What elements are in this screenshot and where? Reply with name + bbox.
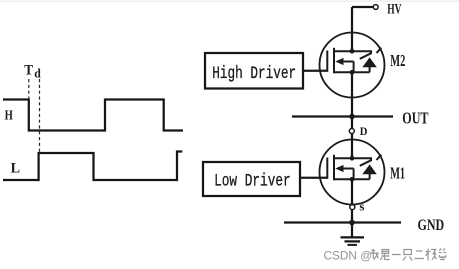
M2 body diode cathode bar bbox=[360, 53, 371, 59]
M2 drain dot bbox=[350, 49, 355, 54]
watermark CJK glyph 一 bbox=[392, 254, 401, 256]
svg-text:CSDN @: CSDN @ bbox=[324, 249, 373, 263]
M1 drain dot bbox=[350, 156, 355, 161]
svg-text:Low Driver: Low Driver bbox=[214, 171, 291, 192]
ground bar 2 bbox=[345, 240, 361, 242]
wire HV to M2 drain bbox=[351, 7, 353, 51]
M2 body arrow line bbox=[340, 61, 354, 63]
M2 body-source jog bbox=[353, 62, 355, 73]
watermark CJK glyph 二 bbox=[415, 251, 424, 259]
ground symbol stem bbox=[351, 223, 353, 237]
svg-text:OUT: OUT bbox=[402, 110, 428, 128]
M2 source stub bbox=[334, 71, 370, 73]
M1 body diode cathode bar bbox=[360, 160, 371, 166]
M1 body diode cathode tick bbox=[377, 155, 382, 160]
svg-text:M2: M2 bbox=[390, 53, 405, 71]
wire M1 source to S bbox=[351, 179, 353, 204]
box Low Driver bbox=[203, 162, 300, 196]
box High Driver bbox=[205, 53, 303, 89]
M1 body arrow line bbox=[340, 168, 354, 170]
svg-text:High Driver: High Driver bbox=[212, 63, 296, 84]
transistor M2 bbox=[303, 33, 385, 98]
M1 body diode triangle bbox=[362, 164, 377, 174]
junction OUT dot bbox=[349, 114, 355, 120]
M2 channel bar bbox=[333, 48, 335, 74]
svg-text:s: s bbox=[359, 198, 364, 213]
waveform L trace bbox=[3, 152, 182, 181]
wire GND rail bbox=[284, 221, 401, 223]
M2 source dot bbox=[350, 70, 355, 75]
M2 body diode triangle bbox=[362, 57, 377, 67]
wire HV stub bbox=[352, 6, 373, 8]
watermark CJK glyph 我 bbox=[370, 249, 378, 260]
ground bar 1 bbox=[341, 236, 365, 238]
M1 channel bar bbox=[333, 155, 335, 181]
watermark CJK glyph 管 bbox=[439, 249, 446, 260]
wire S to GND rail bbox=[351, 210, 353, 223]
M2 body diode anode stem bbox=[369, 67, 371, 73]
waveform H trace bbox=[3, 100, 183, 131]
svg-text:M1: M1 bbox=[390, 165, 405, 183]
M1 source stub bbox=[334, 178, 370, 180]
svg-text:H: H bbox=[5, 107, 14, 123]
M2 gate bar bbox=[326, 51, 328, 72]
M1 gate lead bbox=[300, 177, 327, 179]
faint top border line bbox=[0, 0, 459, 2]
M2 gate lead bbox=[303, 70, 327, 72]
ground bar 3 bbox=[348, 244, 358, 246]
svg-text:GND: GND bbox=[418, 216, 445, 234]
watermark CJK glyph 只 bbox=[403, 250, 412, 261]
transistor M1 bbox=[300, 140, 385, 205]
M2 body diode cathode tick bbox=[377, 48, 382, 53]
wire OUT rail bbox=[292, 115, 393, 117]
svg-text:L: L bbox=[11, 160, 21, 176]
M1 body-source jog bbox=[353, 169, 355, 180]
watermark CJK glyph 极 bbox=[426, 249, 437, 261]
junction GND dot bbox=[349, 220, 355, 226]
terminal S circle bbox=[350, 205, 355, 210]
svg-text:d: d bbox=[34, 66, 41, 80]
M2 drain stub bbox=[334, 51, 371, 54]
wire M2 source to OUT bbox=[351, 72, 353, 128]
dashed line t1 bbox=[28, 79, 30, 100]
wire D to M1 drain bbox=[351, 134, 353, 159]
watermark CJK glyph 是 bbox=[380, 250, 389, 261]
terminal HV circle bbox=[373, 5, 378, 10]
M1 source dot bbox=[350, 177, 355, 182]
dashed line t2 bbox=[39, 79, 41, 153]
M1 body circle bbox=[320, 140, 385, 205]
svg-text:T: T bbox=[24, 62, 34, 78]
M1 body diode anode stem bbox=[369, 174, 371, 180]
M1 gate bar bbox=[326, 158, 328, 179]
svg-text:HV: HV bbox=[387, 0, 401, 17]
M2 body circle bbox=[320, 33, 385, 98]
M1 body arrowhead bbox=[335, 165, 343, 172]
M1 drain stub bbox=[334, 158, 371, 161]
terminal D circle bbox=[349, 129, 354, 134]
M2 body arrowhead bbox=[335, 58, 343, 65]
svg-text:D: D bbox=[360, 126, 368, 138]
